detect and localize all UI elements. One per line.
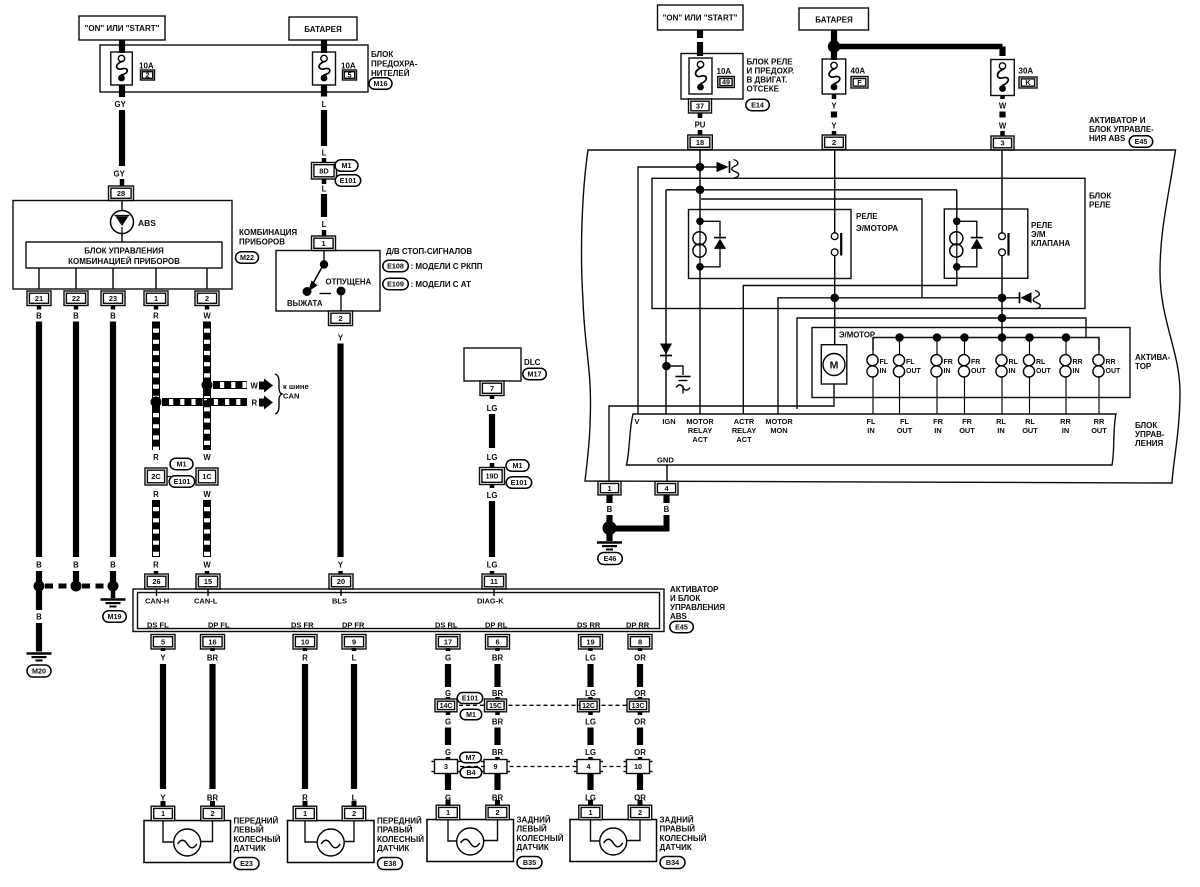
label fuse block [371,50,418,78]
connector ref E109 [383,278,409,290]
svg-text:3: 3 [1000,139,1004,148]
node IGN-ON-START (right) [658,5,744,30]
wire LG sensor column x=590 top label [588,648,593,651]
svg-text:L: L [322,149,327,158]
connector ref M1 (19D) [506,460,529,472]
connector 1C [196,468,218,485]
svg-text:L: L [352,654,357,663]
wire battery to fuse block [321,40,327,53]
internal suppressor symbol [667,366,691,394]
svg-text:АКТИВА-: АКТИВА- [1135,353,1171,362]
svg-text:RR: RR [1094,417,1105,426]
svg-text:FL: FL [866,417,876,426]
svg-text:K: K [1025,78,1031,87]
svg-text:E46: E46 [604,554,617,563]
svg-text:V: V [635,417,640,426]
wire GND stub [666,465,668,481]
svg-text:W: W [251,382,259,391]
svg-text:MON: MON [770,426,787,435]
svg-text:GY: GY [114,170,126,179]
node valve feed 2 [998,314,1007,323]
svg-text:E45: E45 [675,623,688,632]
svg-text:W: W [203,490,211,499]
ground ref M19 [103,611,127,623]
svg-text:12C: 12C [582,703,595,710]
ground ref E46 [598,553,623,565]
svg-text:DP FR: DP FR [342,621,365,630]
svg-text:DS RR: DS RR [577,621,601,630]
svg-text:FL: FL [880,359,889,366]
svg-text:R: R [153,561,159,570]
svg-text:Y: Y [831,102,837,111]
fuse 10A #5 [313,52,336,85]
svg-text:OR: OR [634,654,646,663]
svg-text:IN: IN [1062,426,1069,435]
wire BR sensor column x=498 top label [495,648,500,651]
svg-text:КОЛЕСНЫЙ: КОЛЕСНЫЙ [517,834,564,843]
svg-text:Э/М: Э/М [1031,230,1046,239]
svg-text:IN: IN [880,368,887,375]
svg-text:ABS: ABS [670,612,688,621]
solenoid valve coil FL OUT [893,338,921,415]
connector 3 (E45) [991,136,1014,150]
svg-text:ДАТЧИК: ДАТЧИК [377,844,409,853]
svg-text:M1: M1 [466,712,476,719]
fuse 40A F [822,59,846,94]
svg-text:RR: RR [1106,359,1116,366]
svg-text:M1: M1 [177,460,187,469]
svg-text:FR: FR [962,417,973,426]
connector 19 (ABS unit) [579,635,603,650]
svg-text:8: 8 [638,638,642,647]
svg-text:LG: LG [487,404,498,413]
svg-text:ОТПУЩЕНА: ОТПУЩЕНА [326,278,372,287]
svg-text:BR: BR [492,689,504,698]
wire IGN [665,190,667,414]
svg-text:B: B [36,312,42,321]
svg-text:BLS: BLS [332,597,347,606]
connector 10 [624,760,653,774]
node junction 18a [696,163,705,172]
connector 16 (ABS unit) [201,635,225,650]
svg-text:F: F [857,78,862,87]
svg-text:19D: 19D [486,474,499,481]
svg-text:L: L [322,185,327,194]
svg-text:FR: FR [944,359,953,366]
connector ref M7 [460,752,482,763]
svg-text:ОТСЕКЕ: ОТСЕКЕ [747,85,780,94]
svg-text:IN: IN [1073,368,1080,375]
label actuator (bottom box) [670,585,725,621]
svg-text:G: G [445,748,451,757]
svg-text:ПРИБОРОВ: ПРИБОРОВ [239,238,285,247]
wire LG rear sensor run [587,664,593,687]
wire motor return to gnd connector 1 [609,384,834,481]
svg-text:15: 15 [204,577,212,586]
fuse 30A K [991,60,1015,96]
svg-text:КОМБИНАЦИЕЙ ПРИБОРОВ: КОМБИНАЦИЕЙ ПРИБОРОВ [68,257,180,266]
terminal labels bottom row [147,621,650,630]
wire LG between splices [588,712,593,715]
connector 10 (ABS unit) [293,635,317,650]
svg-text:11: 11 [490,577,498,586]
svg-text:17: 17 [444,638,452,647]
connector 7 (DLC) [480,381,504,396]
svg-text:RELAY: RELAY [688,426,712,435]
wire cluster pin x=113 [112,268,114,289]
wire G sensor column x=448 top label [446,648,451,651]
svg-text:B: B [607,505,613,514]
svg-text:8D: 8D [319,166,329,175]
wire OR between splices [638,712,643,715]
ground E46 symbol [597,543,622,550]
wire branch to ACTR feed (y=199) [701,199,922,298]
svg-text:ABS: ABS [138,218,156,228]
svg-text:OUT: OUT [959,426,975,435]
wire to ground E46 [606,534,612,541]
wire splice dashes [45,584,70,589]
svg-text:21: 21 [35,294,43,303]
relay block box [652,178,1085,308]
wire B gnd 4 [663,495,669,503]
wire B x=113 [111,306,116,310]
svg-text:РЕЛЕ: РЕЛЕ [856,212,878,221]
connector 6 (ABS unit) [486,635,510,650]
svg-text:2: 2 [146,71,150,80]
svg-text:ПРАВЫЙ: ПРАВЫЙ [377,826,413,835]
wire Y sensor column x=163 top label [161,648,166,651]
wire LG below 19D [490,485,495,489]
svg-text:IN: IN [1009,368,1016,375]
svg-text:РЕЛЕ: РЕЛЕ [1089,201,1111,210]
connector ref M16 [369,78,392,90]
connector 5 (ABS unit) [151,635,175,650]
svg-text:БЛОК: БЛОК [1135,421,1157,430]
svg-text:M20: M20 [32,667,46,676]
rear left wheel sensor B35 [427,820,514,862]
connector 14C [435,699,457,712]
fuse 10A #2 [111,52,133,85]
svg-text:B34: B34 [666,858,679,867]
svg-text:БЛОК УПРАВЛЕНИЯ: БЛОК УПРАВЛЕНИЯ [84,247,164,256]
svg-text:R: R [302,654,308,663]
svg-text:1: 1 [588,808,592,817]
wire ON to fuse block [119,40,125,53]
node BATTERY (left) [289,17,357,40]
wire OR to sensor [637,774,643,791]
fuse ref box 49 [718,77,735,88]
ABS actuator unit E45 outline [582,150,1180,483]
wire LG DLC to DIAG-K [490,396,495,400]
svg-text:5: 5 [161,638,165,647]
svg-text:B: B [36,561,42,570]
connector 13C [627,699,649,712]
svg-text:ЛЕВЫЙ: ЛЕВЫЙ [234,826,265,835]
wire conn2 to relay1 contact [834,150,836,233]
relay contact (valve relay) [999,233,1009,256]
sensor ref E38 [378,858,403,870]
activator box [812,328,1130,398]
svg-text:L: L [322,220,327,229]
node valve feed 1 [998,294,1007,303]
pump motor [821,345,847,384]
svg-text:OUT: OUT [1036,368,1052,375]
wire splice dashed 3-9-4-10 [460,766,486,768]
svg-text:E23: E23 [240,859,253,868]
wire cluster pin x=39 [38,268,40,289]
svg-text:2: 2 [352,809,356,818]
svg-text:БЛОК: БЛОК [1089,192,1111,201]
connector ref E45 (top) [1129,136,1153,148]
connector 2 (stop switch) [329,311,353,326]
svg-text:КОЛЕСНЫЙ: КОЛЕСНЫЙ [660,834,707,843]
svg-text:BR: BR [492,718,504,727]
svg-text:DS RL: DS RL [435,621,458,630]
svg-text:Y: Y [831,122,837,131]
svg-text:RL: RL [1025,417,1035,426]
svg-text:M: M [830,360,839,372]
svg-text:6: 6 [495,638,499,647]
svg-text:DLC: DLC [524,358,541,367]
connector 4 (E45 gnd) [655,481,678,495]
fuse ref box F [851,77,868,89]
wire PU [698,113,703,118]
relay motor box U1 [689,210,852,279]
svg-text:УПРАВ-: УПРАВ- [1135,430,1165,439]
instrument cluster M22 box [13,201,232,290]
wire L sensor column x=354 top label [352,648,357,651]
svg-text:R: R [153,490,159,499]
connector 2 (E45) [822,135,846,150]
fuse ref box 2 [141,70,155,80]
svg-text:LG: LG [585,689,596,698]
label activator side [1135,353,1171,371]
connector ref E108 [383,260,409,272]
svg-text:B: B [36,613,42,622]
relay contact (motor relay) [831,233,841,256]
svg-text:M19: M19 [108,612,122,621]
svg-text:PU: PU [695,121,706,130]
svg-text:КОЛЕСНЫЙ: КОЛЕСНЫЙ [234,835,281,844]
connector 3 [432,760,461,774]
svg-text:2C: 2C [151,472,161,481]
svg-text:W: W [203,453,211,462]
svg-text:G: G [445,689,451,698]
svg-text:Э/МОТОР: Э/МОТОР [839,331,875,340]
svg-text:IN: IN [944,368,951,375]
connector 22 [64,291,88,306]
connector 2 (cluster) [195,291,219,306]
svg-text:13C: 13C [632,703,645,710]
connector 17 (ABS unit) [436,635,460,650]
connector 15C [485,699,507,712]
wire relay2 contact down [1001,256,1003,338]
svg-text:W: W [999,122,1007,131]
connector 21 [27,291,51,306]
svg-text:49: 49 [722,78,730,87]
svg-text:MOTOR: MOTOR [765,417,793,426]
svg-text:E108: E108 [387,262,404,271]
svg-text:"ON" ИЛИ "START": "ON" ИЛИ "START" [663,14,738,23]
svg-text:E101: E101 [462,696,478,703]
svg-text:1: 1 [446,808,450,817]
svg-text:L: L [322,100,327,109]
svg-text:M1: M1 [513,461,523,470]
svg-text:КЛАПАНА: КЛАПАНА [1031,239,1070,248]
wire stubs top connectors into box [156,589,158,596]
svg-text:БЛОК УПРАВЛЕ-: БЛОК УПРАВЛЕ- [1089,125,1154,134]
wire ON to fuse 49 [697,30,703,38]
svg-text:OUT: OUT [1106,368,1122,375]
svg-text:B4: B4 [467,770,476,777]
wire cluster pin x=76 [75,268,77,289]
connector ref E45 (bottom) [670,621,694,633]
ground ref M20 [27,665,51,677]
connector 18 [688,135,713,150]
svg-text:LG: LG [585,718,596,727]
svg-text:10: 10 [301,638,309,647]
wire L front sensor run [351,664,357,789]
svg-text:B35: B35 [523,858,536,867]
svg-text:АКТИВАТОР И: АКТИВАТОР И [1089,116,1146,125]
solenoid valve coil RR OUT [1093,338,1121,415]
svg-text:40A: 40A [851,67,866,76]
switch contacts [303,251,346,311]
svg-text:W: W [203,312,211,321]
svg-text:RR: RR [1073,359,1083,366]
svg-text:E101: E101 [511,478,528,487]
stop lamp switch feed L wire [321,85,327,92]
wire Y front sensor run [160,664,166,789]
node gnd splice [603,521,617,535]
svg-text:OUT: OUT [897,426,913,435]
connector ref E101 (2C/1C) [169,476,195,488]
connector ref M1 (14C) [460,709,482,720]
svg-text:R: R [153,453,159,462]
svg-text:FL: FL [906,359,915,366]
node solenoid rail x=900 [895,333,904,342]
wire W CAN-L [205,306,210,310]
svg-text:4: 4 [587,762,591,771]
node solenoid rail x=937 [933,333,942,342]
svg-text:IN: IN [997,426,1004,435]
wire stubs E23 [161,801,166,806]
fuse 10A #49 [689,58,712,94]
svg-text:FL: FL [900,417,910,426]
svg-text:Y: Y [338,334,344,343]
svg-text:Э/МОТОРА: Э/МОТОРА [856,224,898,233]
svg-text:RELAY: RELAY [732,426,756,435]
wire LG to sensor [587,774,593,791]
node BATTERY (right) [799,8,869,30]
svg-text:ЛЕНИЯ: ЛЕНИЯ [1135,439,1163,448]
connector 12C [578,699,600,712]
svg-text:2: 2 [495,808,499,817]
connector 28 [109,186,134,201]
wire BR rear sensor run [494,664,500,687]
svg-text:B: B [664,505,670,514]
svg-text:БЛОК РЕЛЕ: БЛОК РЕЛЕ [747,58,794,67]
svg-text:CAN: CAN [283,392,299,401]
svg-text:3: 3 [444,762,448,771]
sensor ref B34 [660,857,685,869]
svg-text:E101: E101 [174,477,191,486]
svg-text:10A: 10A [341,62,356,71]
svg-text:RR: RR [1060,417,1071,426]
svg-text:КОЛЕСНЫЙ: КОЛЕСНЫЙ [377,835,424,844]
fuse block M16 box [100,45,368,92]
svg-text:DS FL: DS FL [147,621,169,630]
node solenoid rail x=1002 [998,333,1007,342]
wire relay1 contact to motor [834,256,836,345]
wire Y fuse F to conn 2 [832,95,837,100]
svg-text:E14: E14 [751,101,764,110]
svg-text:БАТАРЕЯ: БАТАРЕЯ [304,25,342,34]
sensor ref B35 [517,857,542,869]
svg-text:19: 19 [586,638,594,647]
svg-text:DP RR: DP RR [626,621,650,630]
svg-text:DP FL: DP FL [208,621,230,630]
svg-text:ПРАВЫЙ: ПРАВЫЙ [660,825,696,834]
wire stubs E38 [303,801,308,806]
svg-text:ЗАДНИЙ: ЗАДНИЙ [660,816,694,825]
svg-text:B: B [110,312,116,321]
svg-text:Д/В СТОП-СИГНАЛОВ: Д/В СТОП-СИГНАЛОВ [386,247,472,256]
svg-text:10A: 10A [139,62,154,71]
connector 8 (ABS unit) [628,635,652,650]
wire battery bus [831,30,837,42]
wire B gnd 1 [606,495,612,503]
svg-text:2: 2 [338,314,342,323]
node solenoid rail x=1030 [1025,333,1034,342]
svg-text:В ДВИГАТ.: В ДВИГАТ. [747,76,788,85]
wire lamp to control unit [121,234,123,243]
connector 26 [145,574,169,589]
wire GY fuse2 to cluster [119,85,125,97]
wire splice dashed 14C-15C-12C-13C [459,704,487,706]
svg-text:РЕЛЕ: РЕЛЕ [1031,221,1053,230]
fuse block E14 box [681,54,743,100]
connector 1 (cluster) [144,291,168,306]
ECU control block box [627,414,1117,465]
connector 4 [574,760,603,774]
svg-text:"ON" ИЛИ "START": "ON" ИЛИ "START" [85,24,160,33]
node CAN junction R [151,397,162,408]
svg-text:28: 28 [117,189,125,198]
svg-text:ДАТЧИК: ДАТЧИК [660,843,692,852]
svg-text:W: W [999,102,1007,111]
svg-text:IGN: IGN [662,417,675,426]
svg-text:КОМБИНАЦИЯ: КОМБИНАЦИЯ [239,228,297,237]
wire relay2 coil return to ACTR RELAY ACT [743,267,957,414]
svg-text:14C: 14C [440,703,453,710]
svg-text:OR: OR [634,748,646,757]
connector ref M1 (2C/1C) [170,458,193,470]
svg-text:B: B [110,561,116,570]
svg-text:1: 1 [321,239,325,248]
svg-text:BR: BR [207,654,219,663]
svg-text:15C: 15C [489,703,502,710]
svg-text:1C: 1C [202,472,212,481]
connector ref M17 [523,368,547,380]
connector ref E101 (8D) [335,175,361,187]
node junction 18b [696,186,705,195]
wire W fuse K to conn 3 [1000,96,1005,100]
svg-text:CAN-H: CAN-H [145,597,169,606]
front left wheel sensor E23 [144,821,231,863]
connector ref B4 [460,767,482,778]
node solenoid rail x=1066 [1062,333,1071,342]
